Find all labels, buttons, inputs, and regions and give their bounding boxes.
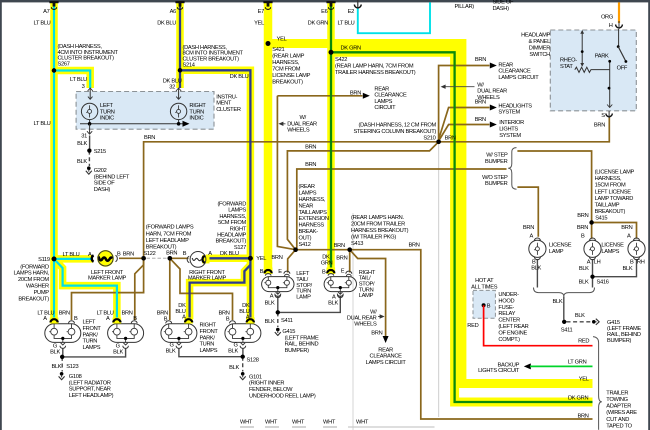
- svg-text:PARK/: PARK/: [83, 332, 99, 338]
- svg-text:LAMP: LAMP: [359, 293, 374, 299]
- svg-text:CUT AND: CUT AND: [606, 417, 629, 423]
- svg-text:BRN: BRN: [475, 117, 486, 123]
- svg-text:BREAKOUT): BREAKOUT): [216, 239, 247, 245]
- svg-text:RED: RED: [578, 338, 589, 344]
- svg-text:BUMPER): BUMPER): [607, 338, 632, 344]
- svg-text:BLK: BLK: [229, 365, 239, 371]
- wire DK GRN from connector E6 through S422 to right tail lamp and trailer: [331, 2, 593, 402]
- svg-text:G415: G415: [282, 329, 295, 335]
- svg-text:31: 31: [81, 134, 87, 140]
- svg-text:E: E: [278, 269, 282, 275]
- svg-text:15CM FROM: 15CM FROM: [595, 183, 626, 189]
- svg-text:MENT: MENT: [216, 101, 232, 107]
- svg-text:STEERING COLUMN BREAKOUT): STEERING COLUMN BREAKOUT): [353, 129, 436, 135]
- left tail pin A connector: [277, 292, 279, 294]
- svg-text:BRN: BRN: [577, 414, 588, 420]
- svg-text:DIMMER: DIMMER: [529, 46, 550, 52]
- svg-text:CLUSTER: CLUSTER: [216, 107, 241, 113]
- svg-text:BRN: BRN: [475, 57, 486, 63]
- wire BRN: S210 branch to interior lights system: [439, 122, 497, 142]
- svg-text:ORG: ORG: [601, 15, 613, 21]
- left tail pin B connector (highlighted): [264, 268, 273, 275]
- svg-text:LAMPS: LAMPS: [374, 99, 392, 105]
- svg-text:DK BLU: DK BLU: [230, 74, 249, 80]
- ground G415 (left): [276, 328, 280, 332]
- svg-text:S267: S267: [58, 62, 70, 68]
- wire BRN: S413 branch to rear clearance lamps circuit (w/ dual rear wheels): [350, 250, 389, 343]
- svg-text:S422: S422: [335, 57, 347, 63]
- svg-text:B: B: [581, 233, 585, 239]
- svg-text:BLK: BLK: [531, 266, 541, 272]
- svg-text:3: 3: [82, 84, 85, 90]
- svg-text:WHT: WHT: [265, 419, 278, 425]
- svg-text:B: B: [322, 269, 326, 275]
- svg-text:HOOD: HOOD: [498, 298, 514, 304]
- svg-text:DK GRN: DK GRN: [341, 45, 362, 51]
- svg-text:BREAK-: BREAK-: [299, 229, 319, 235]
- svg-text:WHT: WHT: [323, 419, 336, 425]
- svg-text:S122: S122: [143, 251, 155, 257]
- splice S422: [329, 50, 334, 55]
- svg-text:LICENSE: LICENSE: [601, 243, 624, 249]
- svg-text:5CM FROM: 5CM FROM: [218, 220, 246, 226]
- left front park/turn lamp 1: [45, 324, 81, 343]
- svg-text:YEL: YEL: [254, 21, 264, 27]
- svg-text:DUAL REAR: DUAL REAR: [477, 89, 507, 95]
- svg-text:S: S: [601, 113, 605, 119]
- wire BLK S128 to G101: [242, 357, 244, 372]
- lamp2R pin A connector (highlighted): [246, 318, 255, 324]
- svg-text:CLEARANCE: CLEARANCE: [370, 354, 403, 360]
- svg-text:LIGHTS: LIGHTS: [499, 127, 518, 133]
- svg-text:HEADLAMP: HEADLAMP: [521, 33, 550, 39]
- svg-text:OFF: OFF: [617, 66, 628, 72]
- svg-text:FRONT: FRONT: [83, 326, 102, 332]
- lamp1 pin B connector: [69, 321, 75, 324]
- wire BLK S411 to G415 dashed: [567, 321, 592, 323]
- svg-text:20CM FROM: 20CM FROM: [18, 277, 49, 283]
- wire LT BLU from connector A7 through S267, S119 to lamps: [54, 2, 117, 319]
- svg-text:RIGHT: RIGHT: [200, 323, 217, 329]
- svg-text:PARK: PARK: [595, 54, 609, 60]
- svg-text:BRN: BRN: [123, 252, 134, 258]
- svg-text:S411: S411: [281, 318, 293, 324]
- connector H: [616, 25, 623, 28]
- svg-text:G108: G108: [69, 374, 82, 380]
- svg-text:WHEELS: WHEELS: [354, 321, 377, 327]
- svg-text:BLK: BLK: [553, 299, 563, 305]
- svg-text:B: B: [260, 269, 264, 275]
- svg-text:BREAKOUT): BREAKOUT): [18, 296, 49, 302]
- svg-text:BLK: BLK: [575, 313, 585, 319]
- cut WHT wire stubs: [240, 426, 435, 428]
- svg-text:UNDER-: UNDER-: [498, 292, 519, 298]
- brace trailer towing adapter: [593, 337, 602, 430]
- cluster pin 32: [176, 88, 181, 100]
- wire BLK right front park lamps to S128: [179, 348, 243, 357]
- dimmer park contact wire to pin S: [607, 60, 612, 108]
- lamp left turn indicator: [81, 103, 97, 119]
- svg-text:BRN: BRN: [371, 331, 382, 337]
- svg-text:RELAY: RELAY: [498, 311, 515, 317]
- splice S416: [590, 275, 594, 279]
- svg-text:BRN: BRN: [621, 225, 632, 231]
- svg-text:BRN: BRN: [305, 144, 316, 150]
- wire BRN: license option W/O STEP BUMPER to license lamp: [517, 187, 538, 237]
- svg-text:YEL: YEL: [256, 256, 266, 262]
- svg-text:DK BLU: DK BLU: [157, 21, 176, 27]
- svg-text:DK BLU: DK BLU: [220, 251, 239, 257]
- svg-text:LICENSE LAMP: LICENSE LAMP: [272, 73, 310, 79]
- svg-text:HARNESS,: HARNESS,: [595, 176, 622, 182]
- wire LT GRN backup lights circuit to trailer adapter: [524, 363, 593, 369]
- svg-text:BLK: BLK: [579, 266, 589, 272]
- svg-text:A: A: [246, 315, 250, 321]
- svg-text:E: E: [341, 268, 345, 274]
- svg-text:BRN: BRN: [445, 136, 456, 142]
- svg-text:W/ STEP: W/ STEP: [486, 153, 508, 159]
- wire BRN: S412 up branch to license lamp brace: [296, 169, 507, 250]
- svg-text:LT BLU: LT BLU: [34, 121, 51, 127]
- svg-text:BUMPER: BUMPER: [485, 159, 508, 165]
- svg-text:S412: S412: [299, 242, 311, 248]
- license lamp (w/o step bumper): [529, 240, 546, 257]
- svg-text:BUMPER): BUMPER): [285, 348, 310, 354]
- svg-text:G101: G101: [249, 374, 262, 380]
- wire ORG to dimmer switch pin H: [618, 2, 620, 23]
- ground G415 (right): [592, 319, 599, 325]
- svg-text:B: B: [164, 316, 168, 322]
- svg-text:CIRCUIT: CIRCUIT: [374, 105, 396, 111]
- svg-text:S128: S128: [247, 358, 259, 364]
- connector E6: [326, 1, 335, 3]
- svg-text:BLK: BLK: [77, 141, 87, 147]
- svg-text:G415: G415: [607, 320, 620, 326]
- svg-text:BREAKOUT): BREAKOUT): [272, 80, 303, 86]
- splice S123: [60, 355, 64, 359]
- wire BRN: S122 to left front park lamp 1 pin B: [72, 258, 144, 320]
- svg-text:INSTRU-: INSTRU-: [216, 94, 237, 100]
- svg-text:UNDERHOOD REEL LAMP): UNDERHOOD REEL LAMP): [249, 393, 316, 399]
- fuse pin B: [482, 303, 486, 307]
- svg-text:YEL: YEL: [277, 37, 287, 43]
- svg-text:LAMPS: LAMPS: [228, 208, 246, 214]
- svg-text:HEADLAMP: HEADLAMP: [217, 233, 246, 239]
- svg-text:& PANEL: & PANEL: [528, 39, 550, 45]
- annotation w/ dual rear wheels (middle): [278, 122, 285, 126]
- instrument cluster box: [76, 92, 214, 130]
- svg-text:A: A: [106, 316, 110, 322]
- wire BRN: S415 to license lamps LH and RH: [591, 223, 593, 239]
- svg-text:NEAR: NEAR: [299, 203, 314, 209]
- wire BLK merge to S411 (right): [563, 296, 565, 319]
- svg-text:BRN: BRN: [122, 311, 133, 317]
- svg-text:BRN: BRN: [475, 100, 486, 106]
- svg-text:TURN: TURN: [200, 342, 215, 348]
- connector S: [606, 114, 612, 117]
- wire BRN: splice to right front park lamp 2 pin B: [170, 258, 233, 320]
- svg-text:S415: S415: [595, 215, 607, 221]
- svg-text:LICENSE: LICENSE: [549, 243, 572, 249]
- underhood fuse-relay center box: [473, 290, 495, 318]
- svg-text:BRN: BRN: [577, 225, 588, 231]
- svg-text:S421: S421: [272, 47, 284, 53]
- left front marker lamp: [99, 251, 113, 265]
- svg-text:BREAKOUT): BREAKOUT): [146, 245, 177, 251]
- svg-text:LAMPS: LAMPS: [299, 191, 317, 197]
- wire BRN: S413 branch to trailer towing adapter: [350, 250, 593, 419]
- svg-text:PARK/: PARK/: [200, 335, 216, 341]
- svg-text:COMPT.): COMPT.): [498, 337, 520, 343]
- right tail pin B connector (highlighted): [327, 268, 336, 275]
- svg-text:BLK: BLK: [77, 159, 87, 165]
- svg-text:BUMPER: BUMPER: [485, 181, 508, 187]
- svg-text:S416: S416: [597, 279, 609, 285]
- svg-text:PILLAR): PILLAR): [455, 4, 475, 10]
- svg-text:BLK: BLK: [328, 300, 338, 306]
- svg-text:(REAR: (REAR: [299, 184, 315, 190]
- svg-text:FENDER, BELOW: FENDER, BELOW: [249, 387, 293, 393]
- svg-text:WHT: WHT: [292, 419, 305, 425]
- wire BLK license lamps LH RH to S416: [592, 259, 594, 277]
- svg-text:(LEFT RADIATOR: (LEFT RADIATOR: [69, 380, 111, 386]
- svg-text:(FORWARD: (FORWARD: [217, 202, 246, 208]
- svg-text:S214: S214: [183, 63, 195, 69]
- svg-text:BRN: BRN: [59, 311, 70, 317]
- connector A6: [175, 1, 184, 3]
- svg-text:LT BLU: LT BLU: [338, 21, 355, 27]
- wire BRN: S210 branch to headlights system: [439, 105, 497, 140]
- svg-text:RIGHT: RIGHT: [189, 103, 206, 109]
- splice S415: [589, 220, 593, 224]
- highlight: DK BLU circuit path from connector A6: [180, 2, 250, 319]
- cluster pin 31: [87, 124, 92, 134]
- splice S119: [52, 257, 57, 262]
- svg-text:(REAR LAMPS HARN.: (REAR LAMPS HARN.: [351, 215, 404, 221]
- svg-text:RED: RED: [467, 323, 478, 329]
- wire BLK cluster pin 31 to S215: [89, 136, 91, 151]
- svg-text:HOT AT: HOT AT: [475, 278, 494, 284]
- right front park/turn lamp 1: [161, 324, 197, 343]
- svg-text:LH: LH: [594, 259, 601, 265]
- wire BLK right tail lamp pin A to S411: [278, 296, 341, 313]
- splice S412: [293, 248, 297, 252]
- svg-text:A: A: [182, 315, 186, 321]
- svg-text:TRAILER: TRAILER: [606, 390, 628, 396]
- connector E7: [263, 1, 272, 3]
- svg-text:BLK: BLK: [228, 348, 238, 354]
- svg-text:BRN: BRN: [144, 135, 155, 141]
- splice S411 (left): [276, 310, 280, 314]
- svg-text:HARNESS: HARNESS: [299, 223, 325, 229]
- svg-text:LT BLU: LT BLU: [34, 21, 51, 27]
- connector A7: [49, 1, 58, 3]
- wire BLK S411 to G415: [277, 312, 279, 327]
- wire BLK S215 to G202: [88, 151, 90, 166]
- svg-text:REAR: REAR: [374, 86, 389, 92]
- svg-text:SYSTEM: SYSTEM: [499, 133, 521, 139]
- svg-text:LAMPS CIRCUIT: LAMPS CIRCUIT: [498, 75, 539, 81]
- wire BRN: S122 to left front park lamp 2 pin B: [135, 258, 144, 320]
- cluster pin 3: [88, 88, 93, 100]
- headlamp and panel dimmer switch box: [550, 30, 636, 111]
- splice S128: [241, 355, 245, 359]
- dimmer rheostat resistor: [575, 67, 610, 72]
- svg-text:G202: G202: [94, 168, 107, 174]
- svg-text:W/O STEP: W/O STEP: [482, 175, 508, 181]
- svg-text:PUMP: PUMP: [34, 290, 50, 296]
- splice dots restamp: [52, 41, 595, 359]
- svg-text:B: B: [226, 316, 230, 322]
- wire BRN: splice to right front park lamp 1 pin B: [169, 258, 171, 320]
- svg-text:RH: RH: [637, 259, 645, 265]
- svg-text:LAMPS: LAMPS: [200, 348, 218, 354]
- splice S421: [266, 41, 271, 46]
- annotation w/ dual rear wheels (top right): [441, 85, 475, 89]
- svg-text:B: B: [487, 304, 491, 310]
- wire BRN: S413 to right tail lamp pin E: [349, 250, 351, 273]
- svg-text:TOWING: TOWING: [606, 397, 627, 403]
- svg-text:E6: E6: [321, 9, 327, 15]
- highlight: DK GRN circuit path from connector E6: [331, 2, 593, 402]
- svg-text:BLK: BLK: [113, 349, 123, 355]
- wire BRN: S210 branch down-left to splice S412: [287, 142, 438, 250]
- svg-text:A: A: [43, 316, 47, 322]
- lamp right turn indicator: [170, 103, 186, 119]
- svg-text:BRN: BRN: [409, 242, 420, 248]
- svg-text:SYSTEM: SYSTEM: [498, 110, 520, 116]
- splice S122: [141, 256, 145, 260]
- svg-text:S119: S119: [38, 257, 50, 263]
- svg-text:REAR: REAR: [498, 62, 513, 68]
- svg-text:(BEHIND LEFT: (BEHIND LEFT: [94, 174, 130, 180]
- svg-text:MARKER LAMP: MARKER LAMP: [188, 276, 227, 282]
- svg-text:A: A: [88, 252, 92, 258]
- wire BLK S416 to merge brace: [592, 277, 594, 288]
- svg-text:BLK: BLK: [623, 266, 633, 272]
- svg-text:DUAL REAR: DUAL REAR: [287, 121, 317, 127]
- svg-text:BREAKOUT): BREAKOUT): [595, 209, 626, 215]
- svg-text:(W/ TRAILER PKG): (W/ TRAILER PKG): [351, 235, 396, 241]
- right front marker lamp: [190, 252, 206, 268]
- svg-text:32: 32: [169, 85, 175, 91]
- svg-text:DASH): DASH): [493, 6, 510, 12]
- svg-text:INTERIOR: INTERIOR: [499, 120, 524, 126]
- wire BLK left front park lamps to S123: [62, 348, 64, 357]
- svg-text:INDIC: INDIC: [100, 116, 114, 122]
- svg-text:(LEFT FRAME: (LEFT FRAME: [285, 335, 319, 341]
- splice S127: [248, 256, 253, 261]
- svg-text:RIGHT: RIGHT: [230, 226, 247, 232]
- faint wire under S210: [438, 143, 440, 417]
- svg-text:SWITCH: SWITCH: [529, 52, 550, 58]
- svg-text:FRONT: FRONT: [200, 329, 219, 335]
- svg-text:OF ENGINE: OF ENGINE: [498, 330, 527, 336]
- splice S267: [52, 68, 56, 72]
- svg-text:WHEELS: WHEELS: [287, 128, 310, 134]
- svg-text:RAIL, BEHIND: RAIL, BEHIND: [285, 342, 319, 348]
- svg-text:A: A: [208, 251, 212, 257]
- svg-text:BLK: BLK: [166, 348, 176, 354]
- svg-text:B: B: [133, 316, 137, 322]
- svg-text:B: B: [117, 252, 121, 258]
- left front park/turn lamp 2: [108, 324, 144, 343]
- svg-text:RHEO-: RHEO-: [560, 58, 577, 64]
- svg-text:OUT): OUT): [299, 235, 312, 241]
- wire BLK license lamp to merge brace: [536, 259, 538, 288]
- svg-text:TURN: TURN: [83, 339, 98, 345]
- license lamp RH: [628, 240, 645, 257]
- svg-text:7CM FROM: 7CM FROM: [272, 67, 300, 73]
- svg-text:FUSE-: FUSE-: [498, 305, 514, 311]
- svg-text:EXTENSION: EXTENSION: [299, 216, 329, 222]
- lamp1R pin A connector (highlighted): [184, 318, 193, 324]
- svg-text:REAR: REAR: [378, 347, 393, 353]
- svg-text:B: B: [532, 259, 536, 265]
- splice S411 (right): [562, 320, 566, 324]
- lamp1R pin B connector: [166, 321, 172, 324]
- svg-text:LT GRN: LT GRN: [568, 359, 587, 365]
- svg-text:INDIC: INDIC: [189, 116, 203, 122]
- svg-text:E7: E7: [258, 9, 264, 15]
- svg-text:BRN: BRN: [305, 162, 316, 168]
- wire YEL from connector E7 to left tail lamp and S421 branch to trailer: [268, 2, 593, 384]
- svg-text:(REAR LAMP HARN, 7CM FROM: (REAR LAMP HARN, 7CM FROM: [335, 64, 414, 70]
- svg-text:W/: W/: [300, 115, 307, 121]
- svg-text:B: B: [630, 259, 634, 265]
- ground G202: [87, 166, 91, 170]
- wire RED fuse B to trailer adapter: [484, 305, 593, 345]
- svg-text:BRN: BRN: [350, 90, 361, 96]
- svg-text:(WIRES ARE: (WIRES ARE: [606, 410, 637, 416]
- svg-text:HEADLIGHTS: HEADLIGHTS: [498, 103, 532, 109]
- svg-text:A: A: [587, 259, 591, 265]
- svg-text:(FORWARD LAMPS: (FORWARD LAMPS: [146, 225, 194, 231]
- svg-text:HARNESS,: HARNESS,: [272, 60, 299, 66]
- annotation w/ dual rear wheels (right tail): [378, 314, 385, 318]
- wire BRN: splice to right front marker lamp pin B: [170, 257, 189, 259]
- cluster internal ground bus: [80, 120, 190, 127]
- svg-text:(LEFT REAR: (LEFT REAR: [498, 324, 528, 330]
- svg-text:TAILLAMP: TAILLAMP: [595, 202, 620, 208]
- ground G101: [241, 372, 245, 376]
- svg-text:WASHER: WASHER: [26, 284, 49, 290]
- svg-text:S210: S210: [423, 136, 435, 142]
- wire BRN: S412 to S413: [296, 249, 350, 251]
- wire BRN: S412 to left tail lamp pin E: [288, 250, 296, 273]
- svg-text:(LICENSE LAMP: (LICENSE LAMP: [595, 170, 635, 176]
- svg-text:BRN: BRN: [334, 243, 345, 249]
- license lamp LH: [584, 240, 601, 257]
- wire BRN: license option W/ STEP BUMPER to splice S415: [517, 151, 591, 221]
- lamp2 pin B connector: [131, 321, 137, 324]
- svg-text:LEFT HEADLAMP): LEFT HEADLAMP): [69, 393, 114, 399]
- svg-text:CLEARANCE: CLEARANCE: [374, 93, 407, 99]
- svg-text:ALL TIMES: ALL TIMES: [471, 284, 498, 290]
- svg-text:DASH): DASH): [94, 187, 111, 193]
- svg-text:LT BLU: LT BLU: [63, 252, 80, 258]
- svg-text:HARNESS,: HARNESS,: [299, 197, 326, 203]
- svg-text:(FORWARD: (FORWARD: [20, 264, 49, 270]
- connector E2: [354, 5, 361, 8]
- svg-text:LEFT LICENSE: LEFT LICENSE: [595, 189, 632, 195]
- svg-text:SUPPORT, NEAR: SUPPORT, NEAR: [69, 387, 111, 393]
- svg-text:BRN: BRN: [577, 213, 588, 219]
- svg-text:LT BLU: LT BLU: [70, 77, 87, 83]
- svg-text:A7: A7: [43, 9, 49, 15]
- splice S215: [87, 149, 91, 153]
- svg-text:HARNESS,: HARNESS,: [219, 214, 246, 220]
